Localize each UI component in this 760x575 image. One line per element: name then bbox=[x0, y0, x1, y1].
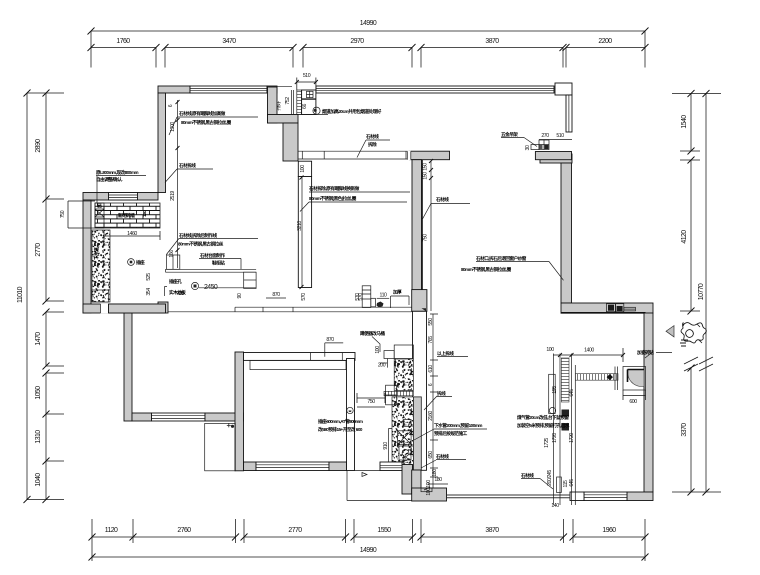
svg-text:66: 66 bbox=[302, 104, 308, 109]
svg-text:1720: 1720 bbox=[569, 433, 575, 443]
bed2 bottom gray bbox=[412, 290, 427, 312]
corridor wall bottom right bbox=[205, 413, 244, 421]
dim top segments bbox=[88, 38, 649, 68]
svg-text:1550: 1550 bbox=[377, 527, 391, 534]
master top fixtures bbox=[606, 304, 635, 312]
svg-text:1050: 1050 bbox=[35, 386, 42, 400]
svg-text:下水道: 下水道 bbox=[93, 247, 100, 260]
svg-text:1960: 1960 bbox=[602, 527, 616, 534]
wall left outer bbox=[83, 200, 91, 313]
entry arrow symbol bbox=[666, 323, 706, 346]
dim left total 11010 bbox=[17, 90, 64, 504]
kitchen wall dim chain bbox=[168, 100, 180, 268]
dining top note bbox=[357, 133, 390, 158]
bath demol notes bbox=[414, 350, 487, 440]
wall mid vertical gray bbox=[283, 123, 298, 161]
brick small boxes left bbox=[95, 203, 104, 228]
svg-text:510: 510 bbox=[556, 133, 564, 139]
label 920 bbox=[176, 291, 184, 297]
dim bottom segments bbox=[89, 519, 649, 543]
svg-text:115: 115 bbox=[563, 480, 569, 487]
bed3 bottom sill right bbox=[329, 462, 347, 471]
svg-text:3470: 3470 bbox=[222, 38, 236, 45]
svg-text:14990: 14990 bbox=[360, 20, 377, 27]
counter note bbox=[165, 252, 257, 296]
door gap 870 kitchen bbox=[266, 292, 286, 298]
bath L wall bottom gray bbox=[402, 465, 447, 502]
bath stipple band bbox=[384, 359, 421, 470]
svg-text:166: 166 bbox=[169, 250, 175, 258]
sill boxes master bottom left bbox=[570, 492, 584, 501]
corridor wall vertical bbox=[124, 313, 132, 421]
porch top wall bbox=[83, 193, 158, 201]
svg-text:插座孔: 插座孔 bbox=[169, 278, 182, 285]
flue box top bbox=[277, 86, 328, 114]
svg-text:870: 870 bbox=[272, 292, 280, 298]
cabinet boxes bed2 TR bbox=[501, 131, 572, 150]
svg-text:3870: 3870 bbox=[485, 38, 499, 45]
bed2 note bbox=[461, 255, 564, 280]
svg-text:加厚: 加厚 bbox=[392, 289, 402, 296]
svg-text:3370: 3370 bbox=[681, 423, 688, 437]
svg-text:石材拆除,原有踢脚线换新做: 石材拆除,原有踢脚线换新做 bbox=[308, 185, 360, 192]
svg-text:645: 645 bbox=[569, 389, 575, 397]
svg-text:烟道加高20cm并用包烟道处理好: 烟道加高20cm并用包烟道处理好 bbox=[322, 108, 382, 115]
balcony edge double line bbox=[421, 488, 570, 498]
wall mid pier bbox=[268, 87, 278, 123]
svg-text:910: 910 bbox=[383, 442, 389, 450]
column box mid bbox=[298, 161, 311, 176]
svg-text:加装空5米预排,预留打孔出水: 加装空5米预排,预留打孔出水 bbox=[516, 422, 570, 429]
svg-text:1725: 1725 bbox=[544, 438, 550, 448]
svg-text:1470: 1470 bbox=[35, 332, 42, 346]
living dining note mid bbox=[300, 185, 410, 212]
wall bed2 top right chunk bbox=[535, 152, 571, 160]
brick infill wall bbox=[95, 203, 160, 228]
svg-text:90: 90 bbox=[237, 293, 243, 298]
svg-text:120: 120 bbox=[142, 210, 147, 217]
svg-text:80mm不锈钢,黑古铜拉丝: 80mm不锈钢,黑古铜拉丝 bbox=[178, 241, 224, 248]
svg-text:新砌砖墙: 新砌砖墙 bbox=[118, 212, 135, 219]
svg-text:1310: 1310 bbox=[35, 430, 42, 444]
bath right wall demolished band bbox=[413, 311, 427, 470]
svg-text:石材口,拆石后退回窗户纱窗: 石材口,拆石后退回窗户纱窗 bbox=[475, 255, 527, 262]
svg-text:750: 750 bbox=[367, 399, 375, 405]
svg-text:765: 765 bbox=[428, 336, 434, 344]
svg-text:200: 200 bbox=[378, 363, 386, 369]
svg-text:270: 270 bbox=[541, 133, 549, 139]
svg-text:石材线,原有踢脚线加高做: 石材线,原有踢脚线加高做 bbox=[178, 110, 226, 117]
kitchen wall note 1 bbox=[169, 110, 258, 135]
corner column top-right bbox=[555, 83, 572, 95]
svg-text:1040: 1040 bbox=[35, 473, 42, 487]
hall door bottom note bbox=[520, 438, 569, 509]
beam lines dining top bbox=[298, 151, 409, 159]
toilet bbox=[398, 420, 412, 461]
svg-text:4120: 4120 bbox=[681, 230, 688, 244]
svg-text:2160: 2160 bbox=[428, 411, 434, 421]
svg-text:525: 525 bbox=[146, 273, 152, 281]
hall wall ladder hatch bbox=[561, 358, 569, 402]
svg-text:100: 100 bbox=[375, 346, 381, 354]
svg-text:加: 加 bbox=[96, 203, 103, 209]
bed3 bottom sill bbox=[244, 462, 257, 471]
hall dims bbox=[546, 347, 625, 487]
stipple pier porch bbox=[92, 230, 110, 302]
dim 750 porch bbox=[60, 201, 95, 228]
wall dining/bath vertical bbox=[412, 160, 423, 312]
svg-text:改580预排15+开至改 600: 改580预排15+开至改 600 bbox=[318, 426, 363, 433]
porch bottom wall bbox=[83, 304, 166, 313]
svg-text:610: 610 bbox=[428, 365, 434, 373]
porch-corridor top wall bbox=[109, 304, 166, 313]
svg-text:600: 600 bbox=[629, 399, 637, 405]
svg-text:1120: 1120 bbox=[105, 527, 118, 534]
wall pier top bbox=[267, 86, 277, 93]
svg-text:2770: 2770 bbox=[35, 243, 42, 257]
corridor window bbox=[152, 413, 206, 421]
svg-text:插座600mm,AT管800mm: 插座600mm,AT管800mm bbox=[318, 418, 363, 425]
porch note text bbox=[96, 169, 146, 203]
bath dim 750 bbox=[347, 393, 385, 414]
svg-text:3210: 3210 bbox=[297, 221, 303, 231]
svg-text:2770: 2770 bbox=[288, 527, 302, 534]
svg-text:110: 110 bbox=[380, 293, 387, 299]
bath door bottom bbox=[380, 453, 466, 496]
svg-text:140: 140 bbox=[551, 503, 559, 509]
wall master top bbox=[561, 303, 653, 313]
svg-text:750: 750 bbox=[60, 210, 66, 218]
svg-text:石材线,拆除后制作线: 石材线,拆除后制作线 bbox=[178, 232, 218, 239]
svg-text:80mm不锈钢,黑古铜拉丝,圈: 80mm不锈钢,黑古铜拉丝,圈 bbox=[461, 266, 512, 273]
window master bottom bbox=[584, 492, 627, 501]
svg-text:570: 570 bbox=[355, 293, 361, 301]
kitchen wall note 2 bbox=[165, 162, 213, 183]
kitchen wall note 3 bbox=[128, 232, 258, 266]
svg-text:石材线: 石材线 bbox=[520, 472, 534, 479]
svg-text:1540: 1540 bbox=[681, 115, 688, 129]
svg-text:石材线: 石材线 bbox=[435, 196, 449, 203]
svg-text:五金吊架: 五金吊架 bbox=[501, 131, 518, 138]
svg-text:下水管200mm,预留100mm: 下水管200mm,预留100mm bbox=[434, 422, 482, 429]
svg-text:150: 150 bbox=[423, 172, 429, 180]
svg-text:645: 645 bbox=[569, 479, 575, 487]
svg-text:195: 195 bbox=[552, 386, 558, 394]
dim right segments bbox=[680, 90, 700, 496]
kitchen sink boxes bbox=[355, 286, 434, 326]
bath right dims chain bbox=[426, 314, 438, 490]
svg-text:354: 354 bbox=[146, 288, 152, 296]
svg-text:2760: 2760 bbox=[177, 527, 191, 534]
svg-text:插座: 插座 bbox=[136, 259, 145, 266]
wall master bottom corner bbox=[627, 492, 653, 501]
svg-text:2970: 2970 bbox=[350, 38, 364, 45]
master shower niche bbox=[615, 349, 672, 405]
bed3 left wall bbox=[235, 352, 244, 471]
svg-text:石材线: 石材线 bbox=[435, 453, 449, 460]
dim right break marks bbox=[684, 357, 713, 371]
dim right total 10770 bbox=[672, 90, 721, 496]
svg-text:1400: 1400 bbox=[584, 348, 594, 354]
dim bottom total 14990 bbox=[89, 543, 649, 561]
wDv dims bbox=[423, 159, 471, 311]
svg-text:2519: 2519 bbox=[170, 191, 176, 201]
dim 510 flue bbox=[274, 73, 318, 111]
kitchen lower counter lines bbox=[168, 293, 412, 312]
svg-text:预排后按规范施工: 预排后按规范施工 bbox=[434, 430, 468, 437]
svg-text:100: 100 bbox=[546, 347, 554, 353]
master bath hatch partition bbox=[576, 374, 619, 381]
balcony step lines bbox=[347, 471, 412, 501]
bath note text bbox=[318, 418, 363, 433]
svg-text:650: 650 bbox=[428, 451, 434, 459]
svg-text:870: 870 bbox=[326, 337, 334, 343]
svg-text:鞋柜贴: 鞋柜贴 bbox=[212, 260, 225, 267]
flue note circle bbox=[313, 107, 382, 115]
window top W2 bbox=[316, 86, 554, 93]
svg-text:石材台面制作: 石材台面制作 bbox=[199, 252, 225, 259]
svg-text:150: 150 bbox=[423, 163, 429, 171]
svg-text:180: 180 bbox=[434, 477, 442, 483]
svg-text:蹲便器改马桶: 蹲便器改马桶 bbox=[360, 330, 385, 337]
svg-text:510: 510 bbox=[303, 73, 311, 79]
svg-text:750: 750 bbox=[423, 234, 429, 242]
svg-text:11010: 11010 bbox=[17, 286, 24, 303]
svg-text:920: 920 bbox=[176, 291, 184, 297]
bath upper box basin bbox=[360, 330, 413, 369]
svg-text:570: 570 bbox=[301, 293, 307, 301]
bath boxes left bbox=[386, 385, 397, 405]
svg-text:1760: 1760 bbox=[116, 38, 130, 45]
svg-text:30: 30 bbox=[525, 145, 531, 150]
svg-text:10770: 10770 bbox=[698, 283, 705, 300]
porch top window bbox=[109, 193, 138, 201]
wall dining/bath top chunk bbox=[407, 151, 449, 161]
hall right wall demol bbox=[553, 354, 575, 506]
bed3 top wall bbox=[244, 337, 356, 370]
svg-text:14990: 14990 bbox=[360, 547, 377, 554]
dim left segments bbox=[35, 90, 64, 504]
svg-text:752: 752 bbox=[285, 97, 291, 105]
kitchen counter top bbox=[166, 255, 257, 288]
svg-text:3870: 3870 bbox=[485, 527, 499, 534]
porch side labels bbox=[146, 273, 152, 296]
wall kitchen left bbox=[158, 93, 166, 193]
wall master right bbox=[644, 313, 653, 492]
svg-text:80mm不锈钢(黑色)拉丝,圈: 80mm不锈钢(黑色)拉丝,圈 bbox=[309, 195, 357, 202]
right upper window vertical bbox=[566, 95, 572, 132]
stipple pier corridor bbox=[92, 290, 109, 302]
hall wall boxes bbox=[549, 374, 569, 430]
svg-text:2200: 2200 bbox=[598, 38, 612, 45]
svg-text:80mm不锈钢,黑古铜拉丝,圈: 80mm不锈钢,黑古铜拉丝,圈 bbox=[181, 119, 232, 126]
svg-text:煤气管20cm改低,台下盆预留: 煤气管20cm改低,台下盆预留 bbox=[517, 414, 569, 421]
hall note bbox=[516, 414, 570, 429]
bed3 right wall bbox=[347, 359, 355, 471]
bed3 window bbox=[256, 462, 329, 471]
svg-text:拆线: 拆线 bbox=[437, 390, 446, 397]
svg-text:100: 100 bbox=[300, 165, 306, 173]
wall mid connector bbox=[268, 115, 299, 124]
svg-text:180: 180 bbox=[432, 469, 438, 477]
window top W1 bbox=[190, 86, 267, 93]
ac platform bbox=[205, 423, 236, 470]
porch bottom door gap bbox=[101, 304, 109, 314]
dim 1460 porch bbox=[104, 231, 160, 240]
svg-text:原L800mm,现改800mm: 原L800mm,现改800mm bbox=[96, 169, 138, 176]
corridor wall bottom bbox=[132, 413, 152, 421]
wall mid lower band bbox=[297, 176, 312, 290]
svg-text:1460: 1460 bbox=[127, 231, 137, 237]
dim top total 14990 bbox=[88, 20, 649, 68]
svg-text:1720: 1720 bbox=[552, 433, 558, 443]
svg-text:以上拆线: 以上拆线 bbox=[437, 350, 454, 357]
wall right vertical to master bbox=[561, 163, 572, 303]
svg-text:石材拆线: 石材拆线 bbox=[178, 162, 196, 169]
junction gray porch-kitchen bbox=[158, 302, 168, 313]
wall top-left corner bbox=[158, 86, 190, 93]
bath dim 910 bbox=[383, 429, 392, 463]
wall right of bed2 horizontal bbox=[540, 154, 572, 163]
svg-text:石材线: 石材线 bbox=[365, 133, 379, 140]
svg-text:自由调整/确认.: 自由调整/确认. bbox=[96, 176, 122, 183]
svg-text:200/245: 200/245 bbox=[547, 470, 553, 486]
svg-text:拆除: 拆除 bbox=[368, 141, 377, 148]
svg-text:2890: 2890 bbox=[35, 139, 42, 153]
